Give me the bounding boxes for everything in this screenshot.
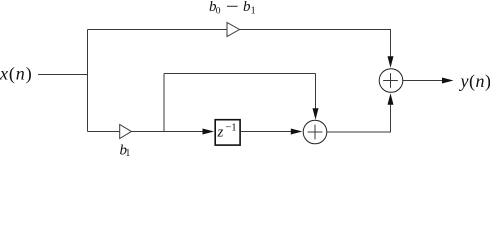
wire bottom branch to delay [131, 131, 203, 133]
gain amplifier b0-b1 triangle [227, 23, 240, 37]
svg-text:0: 0 [216, 7, 221, 17]
wire top branch left segment [88, 29, 228, 31]
gain amplifier b1 triangle [120, 125, 132, 139]
summing junction bottom adder [303, 120, 327, 144]
wire inner loop down into bottom adder [315, 74, 317, 111]
svg-text:1: 1 [251, 6, 256, 17]
svg-text:z: z [217, 125, 224, 141]
wire bottom branch left segment [88, 131, 120, 133]
wire inner loop vertical up from bottom path [163, 74, 165, 132]
delay block z^-1 [215, 120, 240, 145]
svg-text:y(n): y(n) [459, 71, 490, 92]
arrowhead into bottom adder from left [291, 129, 303, 135]
summing junction top adder [379, 69, 403, 93]
arrowhead output [442, 78, 454, 84]
wire input x(n) to junction [38, 74, 88, 76]
wire top branch right segment [240, 29, 392, 31]
arrowhead into bottom adder from above [313, 108, 319, 120]
wire junction vertical branch [87, 30, 89, 132]
wire inner loop horizontal [164, 73, 316, 75]
arrowhead into delay block [203, 129, 215, 135]
wire bottom adder to right [327, 131, 391, 133]
arrowhead into top adder from above [388, 56, 394, 68]
wire down into top adder [390, 30, 392, 59]
wire delay to bottom adder [241, 131, 291, 133]
arrowhead into top adder from below [388, 93, 394, 105]
svg-text:1: 1 [125, 148, 130, 159]
wire output [402, 80, 443, 82]
svg-text:x(n): x(n) [0, 64, 33, 85]
svg-text:−1: −1 [225, 121, 237, 133]
wire up into top adder [390, 104, 392, 132]
